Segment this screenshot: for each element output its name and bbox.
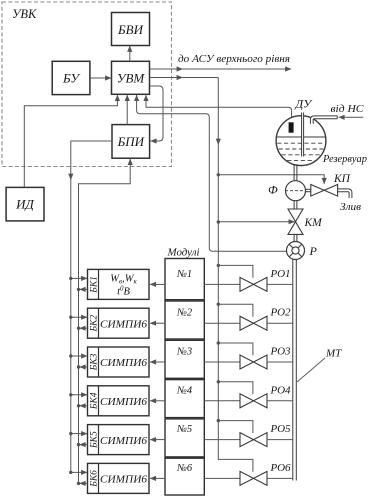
svg-text:№3: №3	[176, 347, 192, 358]
svg-text:БК1: БК1	[89, 276, 99, 294]
svg-text:Wв,Wк: Wв,Wк	[110, 274, 137, 286]
control branch to РО1	[217, 264, 220, 267]
valve КП	[311, 185, 324, 197]
wire bus1 to БК1	[69, 277, 72, 280]
valve РО2	[240, 316, 254, 330]
valve РО1	[240, 277, 254, 291]
wire bus1 to БК5	[69, 432, 72, 435]
valve РО6	[240, 471, 254, 485]
wire module №4 to БК4	[150, 400, 165, 402]
pipe valve РО4 to МТ	[267, 400, 293, 402]
svg-text:№6: №6	[176, 463, 193, 474]
svg-text:БУ: БУ	[62, 70, 81, 85]
pipe valve РО6 to МТ	[267, 477, 293, 479]
svg-text:СИМПИ6: СИМПИ6	[100, 396, 148, 408]
svg-text:Модулі: Модулі	[166, 248, 199, 259]
reservoir tank	[276, 116, 326, 166]
pipe Ф to КМ	[293, 201, 295, 210]
pipe module №5 to valve РО5	[204, 439, 240, 441]
module box №2	[165, 301, 204, 339]
svg-text:до АСУ верхнього рівня: до АСУ верхнього рівня	[178, 54, 290, 65]
control branch to РО2	[217, 303, 220, 306]
svg-text:БПИ: БПИ	[117, 134, 145, 149]
valve РО3	[240, 355, 254, 369]
svg-text:t0В: t0В	[117, 285, 130, 298]
svg-text:БК6: БК6	[89, 470, 99, 488]
svg-text:СИМПИ6: СИМПИ6	[100, 435, 148, 447]
control branch to РО4	[217, 380, 220, 383]
pipe valve РО5 to МТ	[267, 439, 293, 441]
pipe valve РО1 to МТ	[267, 283, 293, 285]
svg-text:Р: Р	[309, 244, 318, 258]
pipe module №1 to valve РО1	[204, 283, 240, 285]
svg-text:Резервуар: Резервуар	[322, 154, 367, 165]
pipe Ф to КП	[305, 188, 310, 190]
pump Р	[287, 242, 305, 260]
wire module №1 to БК1	[150, 283, 165, 285]
wire БУ to УВМ	[90, 77, 111, 79]
drain pipe Злив	[338, 189, 352, 198]
controller БК2	[88, 308, 150, 338]
controller БК6	[88, 463, 150, 493]
control branch to РО6	[218, 459, 253, 471]
svg-text:РО5: РО5	[270, 423, 292, 435]
svg-text:БК4: БК4	[89, 392, 99, 410]
wire БК2 to bus2	[77, 327, 80, 330]
wire БК4 to bus2	[77, 404, 80, 407]
wire module №6 to БК6	[150, 477, 165, 479]
wire ИД to УВМ	[24, 95, 117, 187]
svg-text:УВК: УВК	[12, 7, 37, 21]
controller БК4	[88, 386, 150, 416]
svg-text:РО3: РО3	[270, 346, 292, 358]
valve КМ	[288, 209, 303, 222]
arrow від НС	[344, 116, 363, 118]
pipe module №2 to valve РО2	[204, 322, 240, 324]
svg-text:РО2: РО2	[270, 307, 292, 319]
controller БК5	[88, 425, 150, 455]
svg-text:БК3: БК3	[89, 353, 99, 371]
svg-text:від НС: від НС	[331, 103, 365, 115]
enclosure УВК (dashed)	[2, 2, 172, 167]
svg-text:ДУ: ДУ	[295, 97, 314, 111]
wire УВМ output line 2 (to line A)	[150, 77, 219, 79]
wire bus1 to БК6	[69, 471, 72, 474]
svg-text:БК2: БК2	[89, 315, 99, 333]
block БПИ	[112, 125, 150, 159]
wire УВМ to БВИ	[129, 46, 131, 62]
svg-text:Злив: Злив	[340, 201, 361, 213]
main pipe МТ	[292, 259, 294, 480]
svg-text:БК5: БК5	[89, 431, 99, 449]
block БВИ	[112, 13, 150, 46]
module box №4	[165, 380, 204, 418]
wire УВМ to БПИ (right side)	[150, 86, 164, 141]
pipe КМ to Р	[293, 234, 295, 241]
pipe module №6 to valve РО6	[204, 477, 240, 479]
branch from line A to valve КП	[217, 173, 220, 176]
svg-text:СИМПИ6: СИМПИ6	[100, 474, 148, 486]
pipe valve РО3 to МТ	[267, 361, 293, 363]
wire bus1 to БК4	[69, 393, 72, 396]
svg-text:РО4: РО4	[270, 384, 292, 396]
wire module №3 to БК3	[150, 361, 165, 363]
wire УВМ to upper-level ACS line 1	[150, 68, 292, 70]
wire module №2 to БК2	[150, 322, 165, 324]
control branch to РО5	[217, 419, 220, 422]
wire БК3 to bus2	[77, 365, 80, 368]
module box №1	[165, 259, 204, 300]
pipe tank to filter Ф	[293, 164, 295, 181]
svg-text:№1: №1	[176, 269, 192, 280]
level sensor ДУ	[289, 122, 294, 132]
wire УВМ to pump Р (line B)	[137, 95, 287, 251]
module box №6	[165, 458, 204, 495]
svg-text:КП: КП	[333, 173, 351, 185]
filter Ф	[286, 181, 306, 201]
wire БК1 to bus2	[77, 288, 80, 291]
svg-text:ИД: ИД	[15, 197, 34, 212]
block БУ	[52, 61, 90, 94]
svg-text:№4: №4	[176, 385, 193, 396]
wire module №5 to БК5	[150, 439, 165, 441]
block УВМ	[112, 61, 150, 94]
svg-text:РО6: РО6	[270, 462, 292, 474]
wire level sensor ДУ to УВМ	[146, 95, 292, 122]
module box №3	[165, 340, 204, 378]
water dashes	[277, 142, 325, 144]
module box №5	[165, 419, 204, 457]
svg-text:№5: №5	[176, 424, 192, 435]
svg-text:СИМПИ6: СИМПИ6	[100, 357, 148, 369]
wire БК bus 2 to БПИ (data)	[79, 159, 131, 484]
branch from line A to valve КМ	[217, 220, 220, 223]
wire БПИ to БК bus 1 (commands)	[71, 141, 112, 472]
control branch to РО3	[217, 341, 220, 344]
valve РО5	[240, 433, 254, 447]
level probe tube	[302, 113, 304, 157]
wire БК5 to bus2	[77, 443, 80, 446]
pipe module №4 to valve РО4	[204, 400, 240, 402]
svg-text:№2: №2	[176, 308, 193, 319]
inlet pipe від НС	[310, 116, 337, 124]
svg-text:УВМ: УВМ	[117, 70, 146, 85]
block ИД	[6, 187, 44, 221]
svg-text:РО1: РО1	[270, 268, 291, 280]
wire БПИ to УВМ	[126, 95, 128, 124]
controller БК3	[88, 347, 150, 377]
svg-text:Ф: Ф	[268, 182, 278, 196]
wire bus1 to БК3	[69, 354, 72, 357]
svg-text:СИМПИ6: СИМПИ6	[100, 318, 148, 330]
water level line	[277, 136, 326, 138]
valve РО4	[240, 394, 254, 408]
svg-text:МТ: МТ	[325, 348, 342, 360]
pipe valve РО2 to МТ	[267, 322, 293, 324]
pipe module №3 to valve РО3	[204, 361, 240, 363]
wire БК6 to bus2	[77, 482, 80, 485]
wire bus1 to БК2	[69, 316, 72, 319]
wire line A vertical control bus	[217, 78, 219, 460]
controller БК1	[88, 269, 150, 299]
svg-text:КМ: КМ	[304, 217, 324, 229]
svg-text:БВИ: БВИ	[117, 22, 144, 37]
